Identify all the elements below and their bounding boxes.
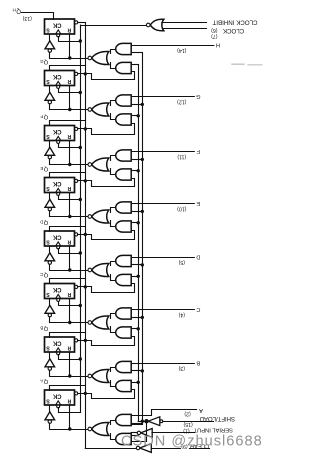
label input C pin 4 bbox=[178, 306, 200, 317]
svg-text:CK: CK bbox=[52, 392, 61, 398]
wire stage D S/R from NOR bbox=[50, 270, 88, 272]
double bubble scan artifact bbox=[160, 420, 163, 423]
junction clock tap C bbox=[79, 304, 82, 307]
svg-text:A: A bbox=[199, 407, 203, 413]
svg-text:(11): (11) bbox=[177, 153, 186, 159]
FFC S label bbox=[46, 291, 50, 297]
inverter FFG S input bbox=[49, 86, 51, 93]
FFG S label bbox=[46, 78, 50, 84]
wire ANDa A load-rail input bbox=[131, 423, 142, 425]
junction clear tap E bbox=[84, 179, 87, 182]
svg-text:CK: CK bbox=[52, 128, 61, 134]
label input G pin 12 bbox=[177, 93, 201, 104]
wire input G bbox=[131, 96, 194, 98]
FFH clear bubble bbox=[75, 21, 78, 24]
NOR gate stage C bbox=[92, 316, 109, 329]
AND gate stage E shift bbox=[116, 221, 132, 232]
junction load rail / shift-load line bbox=[141, 420, 144, 423]
FFE CK label bbox=[52, 180, 61, 186]
wire stage G S/R from NOR bbox=[50, 109, 88, 111]
FFD CK label bbox=[52, 233, 61, 239]
svg-text:S: S bbox=[46, 238, 50, 244]
wire stage C S/R from NOR bbox=[50, 322, 88, 324]
FFD clear bubble bbox=[75, 233, 78, 236]
wire FFB clock tap bbox=[59, 355, 81, 360]
wire ANDa E output bbox=[111, 208, 116, 213]
FFB R label bbox=[67, 344, 71, 350]
flip-flop FFH box bbox=[45, 19, 75, 34]
svg-text:S: S bbox=[46, 26, 50, 32]
wire ANDa F load-rail input bbox=[131, 159, 142, 161]
node QD label bbox=[40, 219, 48, 225]
FFF R label bbox=[67, 133, 71, 139]
wire FFC R input bbox=[69, 299, 71, 323]
wire ANDa G load-rail input bbox=[131, 104, 142, 106]
svg-text:R: R bbox=[67, 238, 71, 244]
inverter FFF S input bbox=[49, 141, 51, 148]
wire ANDb B output bbox=[111, 381, 116, 387]
flip-flop FFF box bbox=[45, 126, 75, 141]
svg-text:D: D bbox=[40, 219, 43, 224]
FFD clock edge wedge bbox=[56, 242, 61, 246]
junction R/D bbox=[68, 268, 71, 271]
wire CLOCK input bbox=[163, 28, 207, 30]
inverter FFA S input bbox=[49, 405, 51, 412]
label CLEAR (9) bbox=[181, 442, 209, 449]
inverter FFE S input bbox=[49, 193, 51, 200]
shift segment to AND A bbox=[132, 422, 147, 442]
label input A pin 2 bbox=[184, 407, 203, 416]
wire FFG clock tap bbox=[59, 89, 81, 93]
wire FFG R input bbox=[69, 86, 71, 110]
wire ANDa D output bbox=[111, 262, 116, 266]
junction R/G bbox=[68, 108, 71, 111]
label input F pin 11 bbox=[177, 148, 200, 159]
wire QF bbox=[50, 121, 86, 126]
wire clock NOR output to clock bus bbox=[81, 26, 147, 28]
svg-text:(5): (5) bbox=[178, 259, 185, 265]
FFB S label bbox=[46, 344, 50, 350]
wire ANDb D shift-rail input bbox=[131, 276, 138, 278]
FFB CK label bbox=[52, 339, 61, 345]
wire ANDb B shift-rail input bbox=[131, 382, 138, 384]
FFE R label bbox=[67, 185, 71, 191]
node QG label bbox=[40, 59, 49, 65]
wire QB bbox=[50, 333, 86, 338]
inverter FFH S input bbox=[49, 34, 51, 41]
svg-text:G: G bbox=[196, 93, 200, 99]
svg-text:S: S bbox=[46, 78, 50, 84]
wire SERIAL INPUT bbox=[152, 432, 195, 434]
junction shift rail D bbox=[137, 275, 140, 278]
FFG R label bbox=[67, 78, 71, 84]
wire input A bbox=[132, 410, 197, 416]
svg-text:E: E bbox=[196, 200, 200, 206]
wire QC bbox=[50, 279, 86, 284]
wire ANDa C output bbox=[111, 314, 116, 319]
svg-text:(7): (7) bbox=[211, 33, 218, 39]
FFE clear bubble bbox=[75, 179, 78, 182]
FFF CK label bbox=[52, 128, 61, 134]
svg-text:S: S bbox=[46, 133, 50, 139]
wire FFB output to stage C shift AND bbox=[78, 337, 135, 346]
junction load rail C bbox=[141, 316, 144, 319]
svg-text:CK: CK bbox=[52, 339, 61, 345]
svg-text:S: S bbox=[46, 397, 50, 403]
wire ANDb A output bbox=[111, 434, 116, 440]
junction shift rail G bbox=[137, 114, 140, 117]
FFC CK label bbox=[52, 286, 61, 292]
FFH S label bbox=[46, 26, 50, 32]
svg-text:S: S bbox=[46, 291, 50, 297]
inverter clear bbox=[140, 444, 152, 453]
AND gate stage H shift bbox=[116, 62, 131, 73]
FFA CK label bbox=[52, 392, 61, 398]
junction clock tap B bbox=[79, 357, 82, 360]
wire ANDa A output bbox=[111, 421, 116, 425]
wire input B bbox=[131, 363, 194, 365]
node QF label bbox=[40, 114, 48, 120]
clock bus wire bbox=[80, 25, 82, 412]
flip-flop FFA box bbox=[45, 390, 75, 405]
overbar LOAD (underline when rotated) bbox=[194, 421, 214, 423]
wire CLOCK INHIBIT input bbox=[162, 22, 207, 24]
NOR gate stage E bbox=[92, 210, 109, 223]
junction shift segment bbox=[145, 420, 148, 423]
wire ANDb E output bbox=[111, 221, 116, 227]
AND gate stage G shift bbox=[116, 114, 131, 125]
AND gate stage D load bbox=[116, 255, 132, 266]
wire ANDa C load-rail input bbox=[131, 317, 142, 319]
flip-flop FFG box bbox=[45, 71, 75, 86]
scan artifact gray dashes bbox=[232, 63, 262, 66]
wire ANDb H shift-rail input bbox=[131, 64, 138, 66]
FFE S label bbox=[46, 185, 50, 191]
svg-text:(3): (3) bbox=[178, 365, 185, 371]
junction R/A bbox=[68, 427, 71, 430]
flip-flop FFC box bbox=[45, 284, 75, 299]
FFC clear bubble bbox=[75, 285, 78, 288]
AND gate stage B shift bbox=[116, 380, 132, 391]
wire stage A S/R from NOR bbox=[50, 429, 88, 431]
AND gate stage D shift bbox=[116, 274, 132, 285]
inverter serial input bbox=[141, 429, 153, 438]
junction clear tap D bbox=[84, 233, 87, 236]
wire QD bbox=[50, 227, 86, 232]
wire stage E S/R from NOR bbox=[50, 216, 88, 218]
NOR gate stage A bbox=[92, 422, 109, 435]
AND gate stage E load bbox=[116, 202, 132, 213]
node QH output label bbox=[13, 8, 22, 14]
NOR gate stage B bbox=[92, 369, 109, 382]
junction shift rail F bbox=[137, 169, 140, 172]
FFG clear bubble bbox=[75, 72, 78, 75]
AND gate stage B load bbox=[116, 361, 132, 372]
wire clear bus to clear inverter bbox=[85, 448, 136, 450]
wire FFA clock tap bbox=[59, 408, 81, 413]
FFH CK label bbox=[52, 21, 61, 27]
NOR gate stage H bbox=[92, 51, 109, 64]
wire input F bbox=[131, 151, 194, 153]
AND gate stage A load bbox=[116, 414, 132, 425]
junction clock tap D bbox=[79, 251, 82, 254]
wire FFC output to stage D shift AND bbox=[78, 284, 135, 293]
wire FFH R input bbox=[69, 34, 71, 58]
junction R/E bbox=[68, 215, 71, 218]
wire FFE output to stage F shift AND bbox=[78, 179, 135, 187]
wire FFH clock tap bbox=[59, 37, 81, 42]
wire ANDa F output bbox=[111, 156, 116, 161]
label input B pin 3 bbox=[178, 360, 200, 371]
wire FFG output to stage H shift AND bbox=[78, 72, 135, 80]
wire ANDa E load-rail input bbox=[131, 211, 142, 213]
svg-text:(13): (13) bbox=[22, 15, 31, 21]
wire FFB R input bbox=[69, 352, 71, 376]
wire FFA R input bbox=[69, 405, 71, 429]
FFD R label bbox=[67, 238, 71, 244]
node QC label bbox=[40, 272, 48, 278]
junction clock tap G bbox=[79, 91, 82, 94]
svg-text:C: C bbox=[40, 272, 43, 277]
svg-text:C: C bbox=[196, 306, 200, 312]
junction clear tap F bbox=[84, 127, 87, 130]
NOR gate stage G bbox=[92, 103, 109, 116]
svg-text:(12): (12) bbox=[177, 98, 186, 104]
FFH clock edge wedge bbox=[56, 30, 61, 34]
FFG CK label bbox=[52, 73, 61, 79]
wire FFC clock tap bbox=[59, 302, 81, 306]
junction R/F bbox=[68, 163, 71, 166]
wire ANDb E shift-rail input bbox=[131, 222, 138, 224]
svg-text:(10): (10) bbox=[177, 205, 186, 211]
AND gate stage F shift bbox=[116, 169, 132, 180]
wire ANDb F output bbox=[111, 169, 116, 175]
svg-text:CK: CK bbox=[52, 73, 61, 79]
svg-text:CK: CK bbox=[52, 286, 61, 292]
svg-text:G: G bbox=[40, 59, 44, 64]
NOR gate stage F bbox=[92, 158, 109, 171]
svg-text:(2): (2) bbox=[184, 410, 191, 416]
FFA clear bubble bbox=[75, 392, 78, 395]
AND gate stage C load bbox=[116, 308, 132, 319]
label input H pin 14 bbox=[177, 42, 220, 53]
wire ANDa B output bbox=[111, 368, 116, 372]
wire QH to FF-H output bbox=[22, 13, 54, 20]
FFB clear bubble bbox=[75, 339, 78, 342]
junction clear tap B bbox=[84, 339, 87, 342]
FFE clock edge wedge bbox=[56, 188, 61, 192]
inverter FFD S input bbox=[49, 246, 51, 253]
FFA clock edge wedge bbox=[56, 401, 61, 405]
wire stage F S/R from NOR bbox=[50, 164, 88, 166]
junction load rail F bbox=[141, 158, 144, 161]
FFC R label bbox=[67, 291, 71, 297]
svg-text:R: R bbox=[67, 397, 71, 403]
AND gate stage G load bbox=[116, 95, 131, 106]
svg-text:S: S bbox=[46, 185, 50, 191]
label CLOCK (7) bbox=[211, 27, 244, 39]
wire FFE R input bbox=[69, 193, 71, 217]
wire ANDb H output bbox=[111, 63, 116, 69]
svg-text:CK: CK bbox=[52, 180, 61, 186]
junction clear tap A bbox=[84, 392, 87, 395]
svg-text:D: D bbox=[196, 254, 200, 260]
svg-text:R: R bbox=[67, 78, 71, 84]
wire FFD output to stage E shift AND bbox=[78, 231, 135, 240]
label input D pin 5 bbox=[178, 254, 200, 265]
svg-text:SHIFT/LOAD: SHIFT/LOAD bbox=[199, 415, 235, 421]
junction clock tap F bbox=[79, 146, 82, 149]
inverter FFB S input bbox=[49, 352, 51, 359]
junction R/C bbox=[68, 321, 71, 324]
svg-text:SERIAL INPUT: SERIAL INPUT bbox=[193, 427, 233, 433]
wire FFD clock tap bbox=[59, 249, 81, 254]
svg-text:R: R bbox=[67, 291, 71, 297]
wire FFE clock tap bbox=[59, 196, 81, 200]
svg-text:(15): (15) bbox=[183, 421, 192, 427]
overbar CLEAR (underline when rotated) bbox=[189, 448, 209, 450]
FFB clock edge wedge bbox=[56, 348, 61, 352]
wire serial inverter to AND A bbox=[131, 432, 137, 434]
svg-text:H: H bbox=[216, 42, 220, 48]
wire ANDb C shift-rail input bbox=[131, 328, 138, 330]
wire ANDb C output bbox=[111, 327, 116, 333]
junction shift rail E bbox=[137, 221, 140, 224]
junction R/H bbox=[68, 56, 71, 59]
svg-text:CK: CK bbox=[52, 233, 61, 239]
wire FFF clock tap bbox=[59, 144, 81, 148]
svg-text:(14): (14) bbox=[177, 47, 186, 53]
label input E pin 10 bbox=[177, 200, 200, 211]
junction clear tap C bbox=[84, 285, 87, 288]
inverter FFC S input bbox=[49, 299, 51, 306]
junction shift rail C bbox=[137, 327, 140, 330]
junction R/B bbox=[68, 374, 71, 377]
wire CLEAR input bbox=[151, 448, 180, 450]
pin 13 label bbox=[22, 15, 31, 21]
junction load rail B bbox=[141, 369, 144, 372]
wire QE bbox=[50, 173, 86, 178]
AND gate stage F load bbox=[116, 150, 132, 161]
node QB label bbox=[40, 325, 48, 331]
FFD S label bbox=[46, 238, 50, 244]
shift rail Rb bbox=[132, 65, 139, 422]
label SERIAL INPUT (1) bbox=[183, 427, 233, 434]
node QA label bbox=[40, 378, 48, 384]
wire FFF output to stage G shift AND bbox=[78, 124, 135, 135]
inverter shift/load bbox=[148, 417, 160, 426]
junction shift rail B bbox=[137, 381, 140, 384]
wire ANDa B load-rail input bbox=[131, 370, 142, 372]
NOR gate G1 clock/clock-inhibit bbox=[150, 19, 164, 30]
svg-text:R: R bbox=[67, 26, 71, 32]
junction load rail E bbox=[141, 210, 144, 213]
junction load rail D bbox=[141, 263, 144, 266]
wire QG bbox=[50, 66, 86, 71]
wire ANDb A shift-rail input bbox=[131, 435, 138, 437]
wire FFH clear to clear bus bbox=[78, 22, 86, 24]
wire FFA output to stage B shift AND bbox=[78, 390, 135, 399]
load rail Ra (from shift/load inverter) bbox=[132, 53, 143, 425]
svg-text:(6): (6) bbox=[211, 27, 218, 33]
svg-text:S: S bbox=[46, 344, 50, 350]
wire shift rail to shift/load line bbox=[138, 421, 145, 423]
wire ANDa G output bbox=[111, 101, 116, 106]
AND gate stage A shift bbox=[116, 433, 132, 444]
node QE label bbox=[40, 166, 48, 172]
svg-text:E: E bbox=[40, 166, 43, 171]
wire ANDa H load-rail input bbox=[131, 52, 142, 54]
wire ANDb F shift-rail input bbox=[131, 170, 138, 172]
wire input H bbox=[131, 45, 214, 47]
svg-text:F: F bbox=[40, 114, 43, 119]
FFA S label bbox=[46, 397, 50, 403]
svg-text:B: B bbox=[196, 360, 200, 366]
clear bus wire bbox=[85, 23, 87, 449]
wire input E bbox=[131, 203, 194, 205]
wire input D bbox=[131, 257, 194, 259]
wire FFD R input bbox=[69, 246, 71, 270]
wire ANDb G shift-rail input bbox=[131, 115, 138, 117]
AND gate stage C shift bbox=[116, 327, 132, 338]
svg-text:R: R bbox=[67, 185, 71, 191]
junction clear tap G bbox=[84, 72, 87, 75]
FFF S label bbox=[46, 133, 50, 139]
svg-text:CLOCK: CLOCK bbox=[222, 27, 244, 34]
FFH R label bbox=[67, 26, 71, 32]
wire FFF R input bbox=[69, 141, 71, 165]
NOR gate stage D bbox=[92, 263, 109, 276]
wire ANDa H output bbox=[111, 50, 116, 54]
wire ANDa D load-rail input bbox=[131, 264, 142, 266]
label SHIFT/LOAD (15) bbox=[183, 415, 235, 427]
flip-flop FFE box bbox=[45, 178, 75, 193]
FFF clock edge wedge bbox=[56, 136, 61, 140]
wire stage B S/R from NOR bbox=[50, 376, 88, 378]
svg-text:CLOCK INHIBIT: CLOCK INHIBIT bbox=[212, 19, 257, 26]
label CLOCK INHIBIT (6) bbox=[211, 19, 258, 33]
wire stage H S/R from NOR bbox=[50, 58, 88, 60]
wire ANDb G output bbox=[111, 114, 116, 120]
junction clock tap E bbox=[79, 198, 82, 201]
svg-text:B: B bbox=[40, 325, 43, 330]
wire QA bbox=[50, 386, 86, 391]
svg-text:(4): (4) bbox=[178, 311, 185, 317]
svg-text:F: F bbox=[196, 148, 200, 154]
FFF clear bubble bbox=[75, 127, 78, 130]
wire ANDb D output bbox=[111, 275, 116, 281]
wire SHIFT/LOAD input bbox=[163, 421, 194, 423]
svg-text:A: A bbox=[40, 378, 43, 383]
wire input C bbox=[131, 309, 194, 311]
svg-text:R: R bbox=[67, 133, 71, 139]
FFA R label bbox=[67, 397, 71, 403]
svg-text:H: H bbox=[13, 8, 16, 13]
FFC clock edge wedge bbox=[56, 294, 61, 298]
svg-text:R: R bbox=[67, 344, 71, 350]
AND gate stage H load bbox=[116, 43, 131, 54]
svg-text:CK: CK bbox=[52, 21, 61, 27]
FFG clock edge wedge bbox=[56, 81, 61, 85]
junction clock tap H bbox=[79, 39, 82, 42]
junction load rail G bbox=[141, 103, 144, 106]
flip-flop FFB box bbox=[45, 337, 75, 352]
flip-flop FFD box bbox=[45, 231, 75, 246]
svg-text:CSDN @zhusl6688: CSDN @zhusl6688 bbox=[121, 434, 263, 450]
